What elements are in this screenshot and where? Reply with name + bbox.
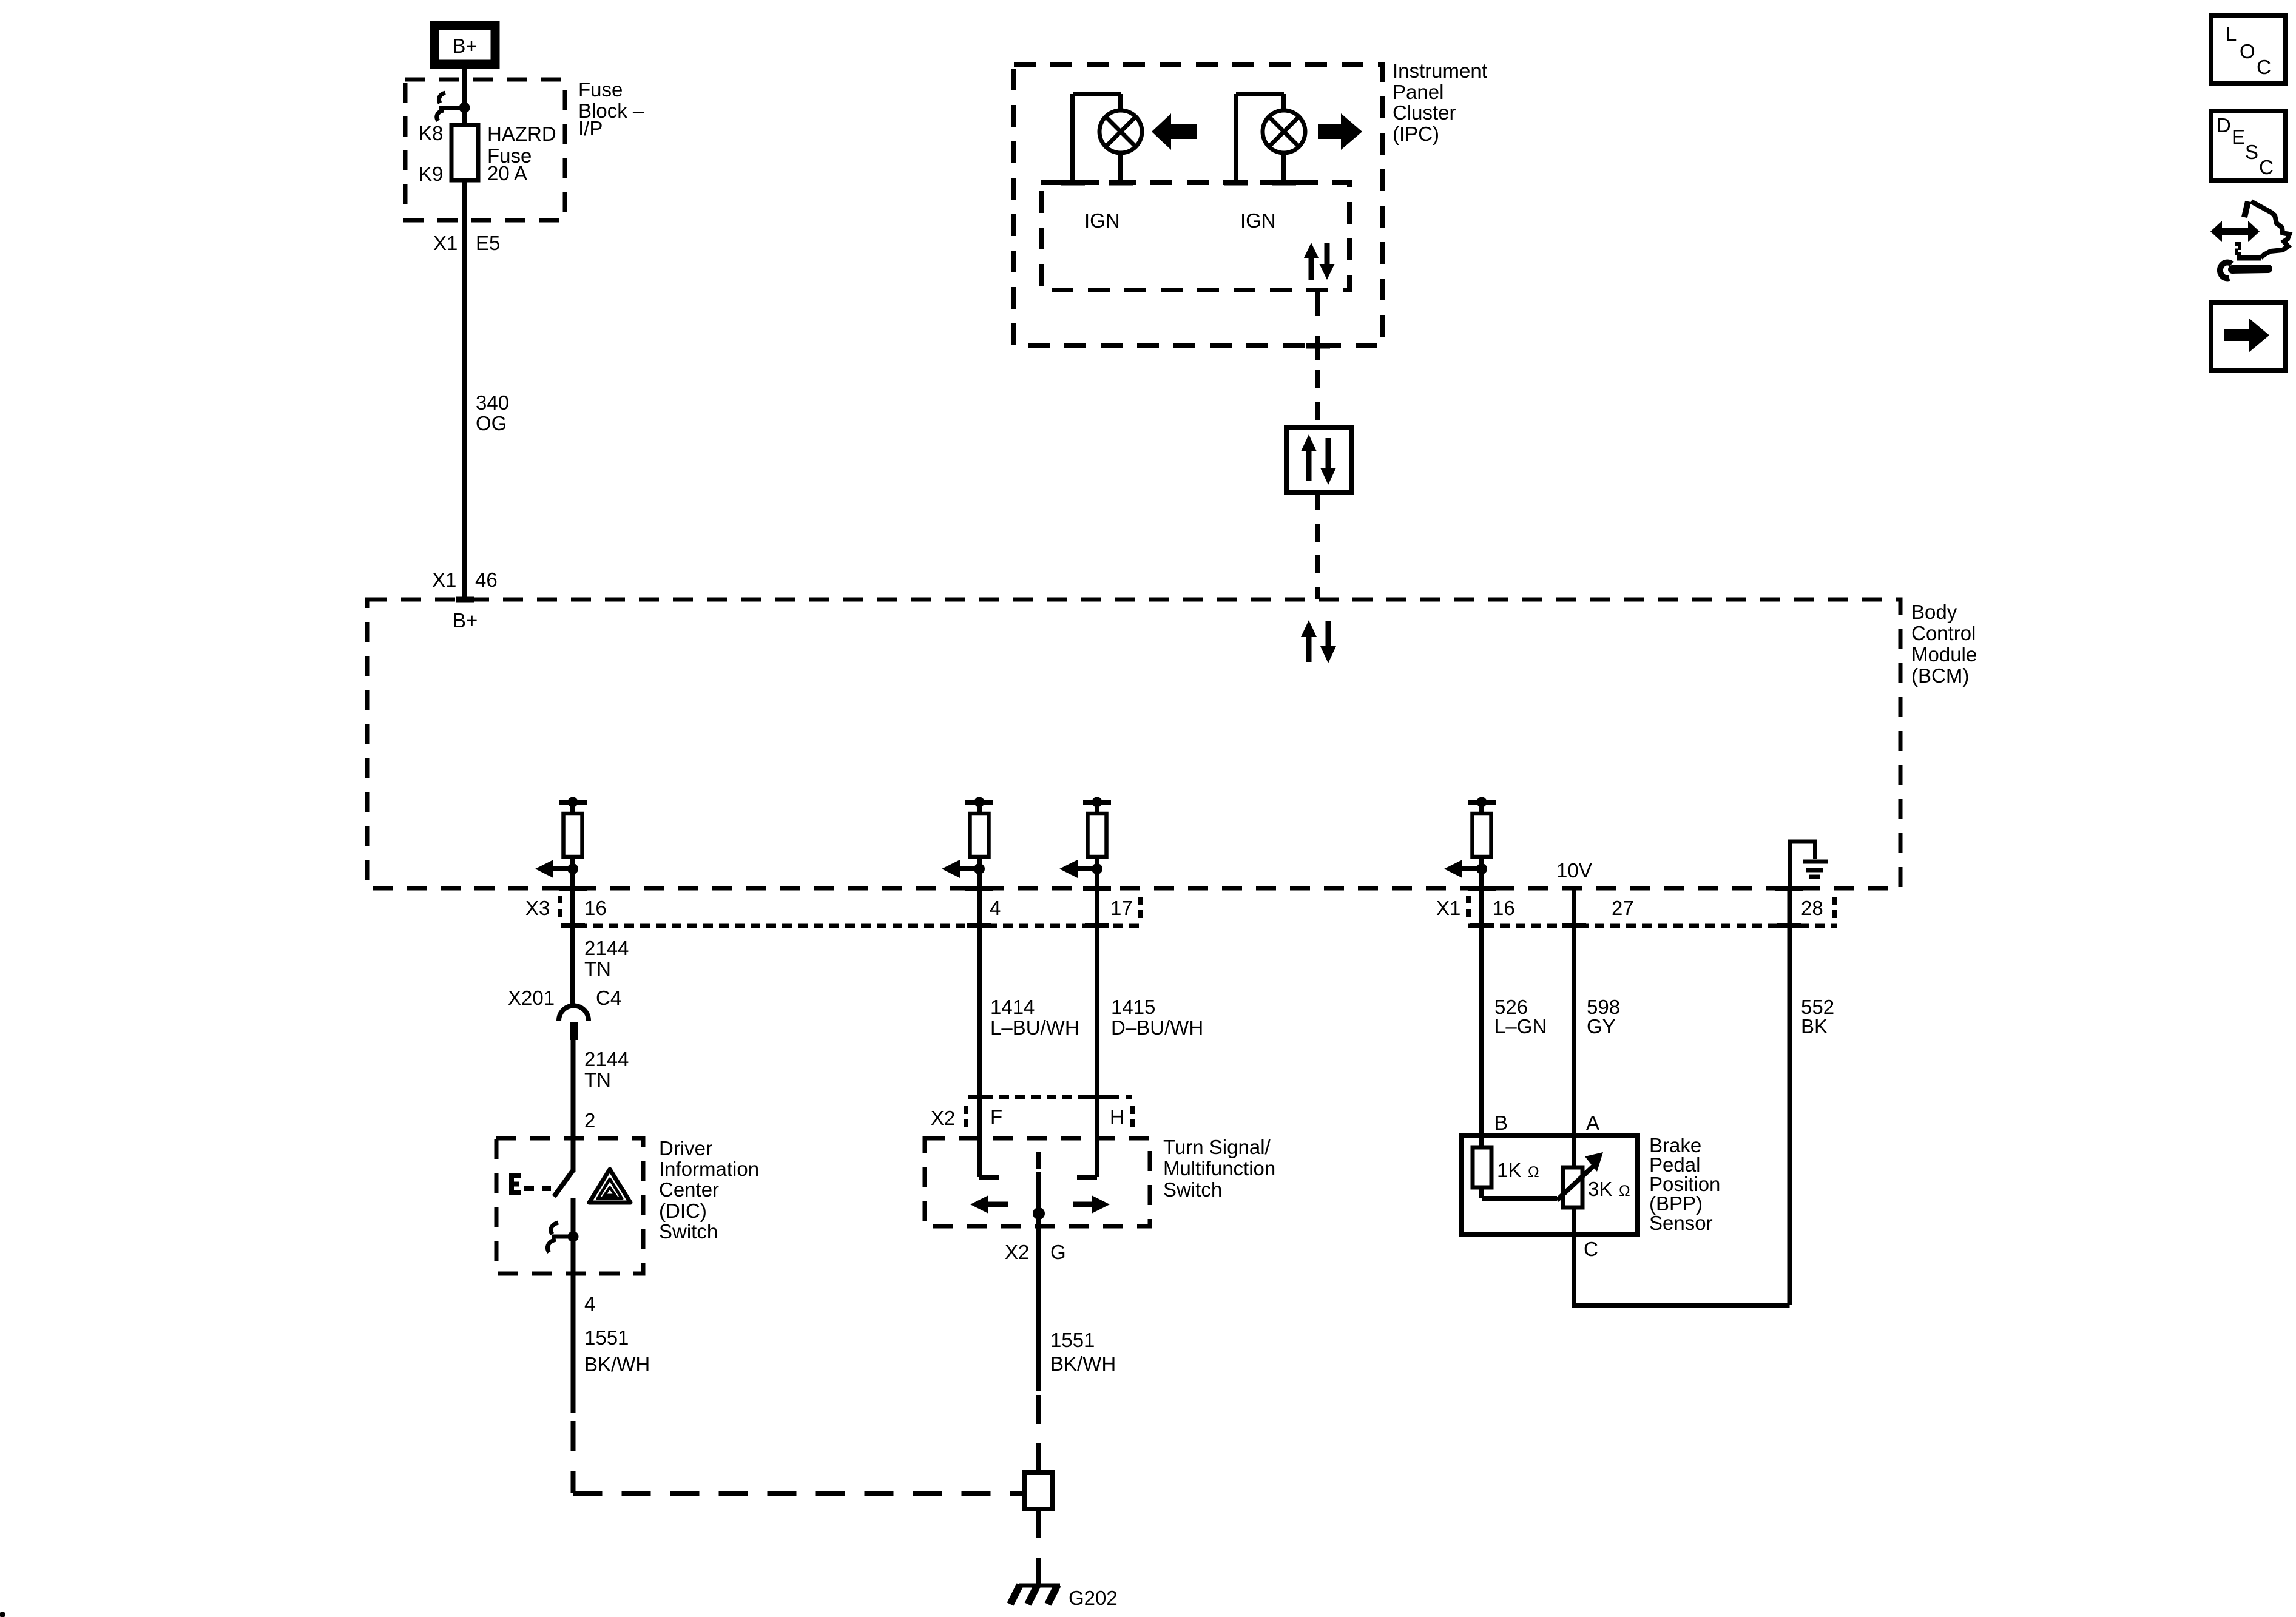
wires 1414 1415 from BCM to TS switch bbox=[977, 888, 982, 1177]
IPC inner dashed box bbox=[1041, 183, 1349, 290]
svg-text:46: 46 bbox=[475, 569, 498, 591]
svg-text:IGN: IGN bbox=[1084, 209, 1120, 232]
icon DESC box bbox=[2211, 111, 2286, 181]
TS left arrow bbox=[970, 1195, 1008, 1214]
svg-text:Body: Body bbox=[1911, 601, 1957, 623]
svg-text:A: A bbox=[1586, 1112, 1599, 1134]
svg-text:C: C bbox=[1584, 1238, 1598, 1260]
svg-text:X2: X2 bbox=[931, 1107, 955, 1129]
BPP internal wire bbox=[1482, 1196, 1557, 1201]
svg-text:16: 16 bbox=[1493, 897, 1515, 919]
svg-text:1551: 1551 bbox=[584, 1326, 629, 1349]
svg-text:BK/WH: BK/WH bbox=[1050, 1352, 1116, 1375]
serial data terminal at IPC inner box bbox=[1315, 290, 1320, 316]
TS contact H hook bbox=[1077, 1175, 1097, 1180]
BCM serial up arrow bbox=[1301, 620, 1317, 662]
BPP ground return wire bbox=[1574, 1207, 1790, 1305]
svg-text:I/P: I/P bbox=[578, 117, 603, 140]
svg-text:(DIC): (DIC) bbox=[659, 1200, 707, 1222]
icon hand with arrows and wrench bbox=[2210, 201, 2289, 278]
svg-text:X201: X201 bbox=[508, 987, 555, 1009]
serial data gateway box bbox=[1286, 427, 1351, 492]
svg-text:HAZRD: HAZRD bbox=[487, 123, 556, 145]
svg-text:H: H bbox=[1110, 1106, 1124, 1128]
inline connector X201 C4 bbox=[559, 1006, 589, 1041]
svg-text:IGN: IGN bbox=[1240, 209, 1276, 232]
svg-text:Information: Information bbox=[659, 1158, 759, 1180]
svg-text:Switch: Switch bbox=[1163, 1178, 1222, 1201]
svg-text:BK/WH: BK/WH bbox=[584, 1353, 650, 1376]
svg-text:2144: 2144 bbox=[584, 1048, 629, 1070]
svg-text:4: 4 bbox=[584, 1292, 595, 1315]
svg-text:4: 4 bbox=[990, 897, 1001, 919]
dashed wire to splice bbox=[1036, 1391, 1041, 1473]
splice box bbox=[1025, 1473, 1053, 1509]
DIC clip symbol bbox=[547, 1223, 573, 1252]
svg-text:X1: X1 bbox=[432, 569, 456, 591]
serial data dashed wire lower bbox=[1315, 492, 1320, 599]
svg-text:E5: E5 bbox=[476, 232, 500, 254]
lamp terminal ticks bbox=[1224, 180, 1248, 186]
stray period bottom left bbox=[0, 1612, 5, 1617]
svg-text:B+: B+ bbox=[453, 609, 478, 632]
svg-text:Fuse: Fuse bbox=[578, 78, 623, 101]
svg-text:Control: Control bbox=[1911, 622, 1976, 644]
TS contact F hook bbox=[979, 1175, 999, 1180]
svg-text:27: 27 bbox=[1612, 897, 1634, 919]
svg-text:340: 340 bbox=[476, 391, 509, 414]
svg-text:Panel: Panel bbox=[1393, 81, 1443, 103]
svg-text:GY: GY bbox=[1587, 1015, 1616, 1038]
IPC serial up arrow bbox=[1304, 243, 1319, 280]
svg-text:17: 17 bbox=[1110, 897, 1133, 919]
BCM serial down arrow bbox=[1320, 621, 1336, 663]
wire crossing ticks at BCM border bbox=[559, 886, 1803, 891]
svg-text:(BCM): (BCM) bbox=[1911, 664, 1969, 687]
DIC lower wire bbox=[571, 1198, 576, 1413]
svg-text:K9: K9 bbox=[419, 163, 443, 185]
wire 552 BK bbox=[1788, 888, 1792, 1305]
svg-text:Ω: Ω bbox=[1528, 1164, 1539, 1181]
svg-text:C: C bbox=[2259, 156, 2274, 178]
right turn indicator lamp bbox=[1236, 94, 1305, 183]
svg-text:10V: 10V bbox=[1556, 859, 1592, 882]
svg-text:2: 2 bbox=[584, 1109, 595, 1132]
wire crossing ticks at connector dotted row bbox=[561, 923, 1801, 928]
svg-text:G202: G202 bbox=[1069, 1587, 1118, 1609]
gateway up arrow bbox=[1301, 434, 1317, 481]
wire crossing ticks at X2 dotted row bbox=[968, 1095, 1110, 1099]
TS right arrow bbox=[1073, 1195, 1110, 1214]
BCM internal resistor at pin 4 bbox=[942, 797, 993, 889]
svg-text:28: 28 bbox=[1801, 897, 1823, 919]
svg-text:(IPC): (IPC) bbox=[1393, 123, 1439, 145]
svg-text:Turn Signal/: Turn Signal/ bbox=[1163, 1136, 1271, 1158]
svg-text:B+: B+ bbox=[452, 35, 477, 57]
svg-text:F: F bbox=[990, 1106, 1002, 1128]
left turn indicator lamp bbox=[1073, 94, 1142, 183]
BCM internal resistor at X1-16 bbox=[1444, 797, 1496, 889]
svg-text:OG: OG bbox=[476, 412, 507, 434]
wire B+ to fuse block bbox=[462, 64, 467, 127]
pin row dotted line right bbox=[1468, 924, 1837, 928]
svg-text:Instrument: Instrument bbox=[1393, 59, 1487, 82]
svg-text:1415: 1415 bbox=[1111, 996, 1155, 1018]
DIC switch actuator E with dashes bbox=[509, 1173, 521, 1195]
terminal tick at BCM pin 46 bbox=[456, 597, 474, 603]
svg-text:X1: X1 bbox=[1436, 897, 1460, 919]
svg-text:L–GN: L–GN bbox=[1494, 1015, 1547, 1038]
wire 526 L-GN bbox=[1479, 888, 1484, 1149]
gateway down arrow bbox=[1320, 438, 1336, 485]
IPC outer dashed box bbox=[1014, 65, 1383, 346]
TS wiper dashed stub bbox=[1036, 1152, 1041, 1169]
svg-text:D: D bbox=[2217, 114, 2231, 137]
turn signal switch dashed box bbox=[925, 1138, 1150, 1226]
wire 340 OG fuse to BCM bbox=[462, 180, 467, 599]
svg-text:E: E bbox=[2232, 126, 2245, 148]
svg-text:Cluster: Cluster bbox=[1393, 101, 1456, 124]
svg-text:X2: X2 bbox=[1005, 1241, 1029, 1263]
svg-text:2144: 2144 bbox=[584, 937, 629, 959]
BPP wiper arrow bbox=[1557, 1152, 1603, 1200]
DIC switch dashed box bbox=[496, 1138, 643, 1274]
svg-text:20 A: 20 A bbox=[487, 162, 527, 184]
serial data terminal at IPC outer box bbox=[1315, 336, 1320, 360]
svg-text:C: C bbox=[2257, 56, 2271, 78]
BCM internal ground at pin 28 bbox=[1790, 842, 1828, 888]
BPP 3K potentiometer bbox=[1563, 1167, 1582, 1207]
svg-text:S: S bbox=[2245, 141, 2258, 163]
BCM dashed box bbox=[367, 599, 1900, 888]
DIC switch blade bbox=[554, 1170, 573, 1197]
svg-text:C4: C4 bbox=[596, 987, 621, 1009]
svg-text:G: G bbox=[1050, 1241, 1066, 1263]
ground symbol G202 bbox=[1010, 1585, 1060, 1604]
BCM internal resistor at X3-16 bbox=[535, 797, 587, 889]
fuse block I/P dashed box bbox=[405, 79, 565, 220]
dashed wire to ground bbox=[1036, 1509, 1041, 1584]
icon arrow box bbox=[2211, 303, 2286, 371]
svg-text:3K: 3K bbox=[1588, 1178, 1612, 1200]
pin row dotted line left bbox=[561, 924, 1143, 928]
B+ power symbol box bbox=[434, 25, 495, 64]
wire 2144 TN upper bbox=[570, 888, 575, 1005]
svg-text:16: 16 bbox=[584, 897, 607, 919]
wire 2144 TN lower bbox=[571, 1040, 576, 1172]
BPP 1K resistor bbox=[1473, 1147, 1491, 1187]
junction dot at fuse feed bbox=[459, 103, 470, 113]
svg-text:TN: TN bbox=[584, 957, 611, 980]
svg-text:Ω: Ω bbox=[1619, 1183, 1630, 1200]
TS wiper wire and junction bbox=[1036, 1172, 1041, 1391]
left block arrow bbox=[1152, 113, 1197, 150]
svg-text:X1: X1 bbox=[433, 232, 458, 254]
dotted separator 17 bbox=[1138, 897, 1143, 921]
svg-text:1K: 1K bbox=[1497, 1159, 1521, 1181]
dotted separator 28 bbox=[1832, 897, 1837, 921]
svg-text:K8: K8 bbox=[419, 122, 443, 144]
svg-text:B: B bbox=[1494, 1112, 1508, 1134]
dashed ground wire from DIC bbox=[571, 1421, 576, 1493]
svg-text:Switch: Switch bbox=[659, 1220, 718, 1243]
right block arrow bbox=[1318, 113, 1362, 150]
svg-text:L: L bbox=[2226, 22, 2237, 45]
BCM internal resistor at pin 17 bbox=[1059, 797, 1111, 889]
icon LOC box bbox=[2211, 16, 2286, 84]
svg-text:Sensor: Sensor bbox=[1649, 1212, 1713, 1234]
hazard triangle icon bbox=[589, 1169, 630, 1203]
fuse F HAZRD 20A bbox=[451, 125, 478, 180]
TS switch connector row X2 bbox=[968, 1095, 1132, 1099]
IPC serial down arrow bbox=[1320, 243, 1335, 280]
dotted separator X1 bbox=[1466, 896, 1471, 922]
svg-text:1414: 1414 bbox=[990, 996, 1035, 1018]
svg-text:Multifunction: Multifunction bbox=[1163, 1157, 1275, 1180]
svg-text:1551: 1551 bbox=[1050, 1329, 1095, 1351]
svg-text:Driver: Driver bbox=[659, 1137, 712, 1160]
svg-text:BK: BK bbox=[1801, 1015, 1828, 1038]
svg-text:X3: X3 bbox=[525, 897, 550, 919]
BPP sensor box bbox=[1462, 1136, 1638, 1234]
serial data dashed wire upper bbox=[1315, 370, 1320, 427]
lamp terminal ticks bbox=[1061, 180, 1085, 186]
svg-text:L–BU/WH: L–BU/WH bbox=[990, 1016, 1079, 1039]
svg-text:Module: Module bbox=[1911, 643, 1977, 666]
svg-text:TN: TN bbox=[584, 1068, 611, 1091]
fuse block clip symbol bbox=[437, 93, 465, 121]
svg-text:O: O bbox=[2240, 40, 2255, 62]
svg-text:Center: Center bbox=[659, 1178, 719, 1201]
wire 598 GY bbox=[1572, 888, 1576, 1169]
dotted separator X3 bbox=[558, 896, 562, 922]
svg-text:D–BU/WH: D–BU/WH bbox=[1111, 1016, 1203, 1039]
